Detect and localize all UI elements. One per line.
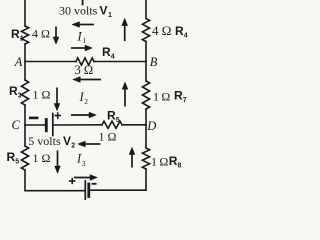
resistor R5 left zigzag (21, 146, 28, 170)
svg-text:V: V (63, 134, 71, 148)
wire left rail C to R5 (24, 125, 26, 146)
wire left rail A to R3 (24, 62, 26, 81)
current arrow right above battery V2 (71, 112, 96, 118)
svg-text:R: R (7, 150, 16, 164)
current arrow right above 3 ohm (71, 45, 92, 51)
current arrow down next to R1 (53, 27, 59, 45)
svg-text:C: C (12, 118, 21, 132)
wire left rail R1 to A (24, 44, 26, 62)
label R6 on branch (102, 45, 115, 61)
svg-text:4: 4 (184, 33, 188, 40)
svg-text:1 Ω: 1 Ω (153, 90, 170, 104)
svg-text:R: R (174, 89, 183, 103)
svg-text:7: 7 (183, 97, 187, 104)
wire C to battery V2 (25, 124, 45, 126)
svg-text:2: 2 (84, 97, 88, 106)
svg-text:1: 1 (83, 36, 87, 45)
resistor R1 zigzag (21, 26, 28, 44)
wire branch A to 3 ohm resistor (25, 61, 76, 63)
resistor R6 3 ohm zigzag (76, 58, 94, 65)
current arrow up next to R8 (129, 147, 135, 167)
label plus V3 (69, 178, 76, 184)
svg-text:1 Ω: 1 Ω (33, 151, 51, 165)
label R5 bottom left (7, 150, 20, 166)
svg-text:4 Ω: 4 Ω (152, 23, 171, 38)
resistor R8 zigzag (142, 148, 149, 169)
current arrow up next to R7 (122, 82, 128, 107)
svg-text:A: A (14, 55, 23, 69)
svg-text:R: R (11, 27, 20, 41)
wire R5 to D (122, 124, 146, 126)
label minus V2 (29, 117, 39, 120)
current arrow down next to R3 (54, 88, 60, 111)
svg-text:3: 3 (18, 93, 22, 100)
svg-text:R: R (175, 24, 184, 38)
battery V1 plate stub top (82, 0, 84, 5)
label I1 (77, 30, 87, 46)
wire 3 ohm resistor to B (94, 61, 146, 63)
label 30 volts V1 (59, 4, 112, 20)
label R1 (11, 27, 24, 43)
svg-text:3: 3 (82, 159, 86, 168)
svg-text:1: 1 (20, 36, 24, 43)
svg-text:1: 1 (108, 12, 112, 19)
battery V3 long plate bottom (84, 181, 86, 200)
svg-text:2: 2 (71, 143, 75, 150)
current arrow right above battery V3 (74, 175, 97, 181)
svg-text:1 Ω: 1 Ω (33, 88, 51, 102)
wire right rail R7 to D (145, 109, 147, 125)
current arrow down next to left R5 (55, 151, 61, 174)
svg-text:4: 4 (111, 54, 115, 61)
wire left rail bottom corner (25, 170, 84, 191)
label minus V3 (92, 183, 97, 185)
wire right rail R4 to B (145, 42, 147, 62)
resistor R7 zigzag (142, 81, 149, 109)
wire right rail B to R7 (145, 62, 147, 82)
wire right rail D to R8 (145, 125, 147, 148)
resistor R3 zigzag (21, 80, 28, 105)
wire battery V2 to R5 (54, 124, 102, 126)
label R8 (169, 154, 182, 170)
current arrow I1 left top (72, 22, 94, 28)
svg-text:5: 5 (116, 117, 120, 124)
label R4 top right (175, 24, 188, 40)
label 5 volts V2 (28, 134, 75, 150)
svg-text:5 volts: 5 volts (28, 134, 61, 148)
svg-text:8: 8 (178, 163, 182, 170)
battery V2 long plate (52, 114, 54, 136)
current arrow up top right (122, 18, 128, 41)
battery V2 short plate (45, 120, 48, 131)
resistor R4 zigzag top right (142, 19, 149, 42)
svg-text:R: R (9, 84, 18, 98)
svg-text:R: R (107, 108, 116, 122)
wire right rail top (145, 0, 147, 19)
label R7 (174, 89, 187, 105)
svg-text:30 volts: 30 volts (59, 4, 98, 18)
svg-text:R: R (102, 45, 111, 59)
svg-text:R: R (169, 154, 178, 168)
svg-text:B: B (150, 55, 158, 69)
label I3 (76, 152, 86, 169)
battery V3 short plate bottom (87, 184, 90, 197)
wire right rail bottom corner (90, 169, 146, 190)
svg-text:4 Ω: 4 Ω (32, 27, 50, 41)
svg-text:5: 5 (15, 158, 19, 165)
svg-text:3 Ω: 3 Ω (75, 63, 94, 77)
label R3 (9, 84, 22, 100)
svg-text:V: V (100, 4, 108, 18)
resistor R5 1 ohm zigzag horizontal (102, 121, 122, 128)
label plus V2 (55, 112, 62, 119)
svg-text:1 Ω: 1 Ω (99, 130, 117, 144)
wire left rail top (24, 0, 26, 26)
current arrow left below 3 ohm (73, 77, 101, 83)
svg-text:1 Ω: 1 Ω (151, 155, 168, 169)
wire left rail R3 to C (24, 105, 26, 125)
label R5 (107, 108, 120, 124)
current arrow left after 5 volts V2 (78, 141, 101, 147)
label I2 (79, 90, 89, 106)
svg-text:D: D (146, 119, 156, 133)
